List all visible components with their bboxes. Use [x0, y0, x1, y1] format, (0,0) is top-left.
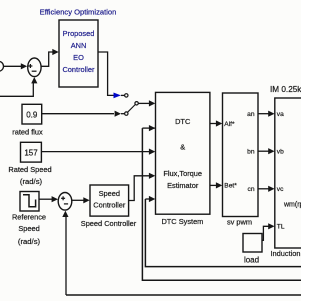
svg-text:Estimator: Estimator — [167, 181, 199, 190]
svg-text:IM 0.25k: IM 0.25k — [270, 85, 301, 94]
wire sum1 to ANN block — [41, 52, 53, 66]
block load — [243, 234, 262, 253]
block ANN EO Controller — [59, 20, 98, 87]
svg-text:sv pwm: sv pwm — [227, 218, 252, 227]
blue arrowhead — [114, 93, 121, 99]
svg-text:Speed: Speed — [99, 189, 120, 198]
svg-text:(rad/s): (rad/s) — [18, 237, 41, 246]
block DTC System — [156, 92, 210, 214]
wire ANN out to switch — [98, 52, 114, 95]
svg-text:an: an — [247, 111, 255, 118]
manual switch — [125, 94, 128, 97]
svg-text:&: & — [180, 143, 185, 152]
svg-text:DTC System: DTC System — [161, 217, 203, 226]
wire 157 to DTC in3 — [41, 151, 149, 153]
svg-text:Alf*: Alf* — [224, 121, 235, 128]
block sv pwm — [223, 93, 259, 217]
svg-text:load: load — [244, 255, 259, 264]
wires DTC outputs to sv pwm — [210, 123, 217, 125]
svg-text:Bet*: Bet* — [224, 183, 237, 190]
svg-text:vb: vb — [277, 149, 284, 156]
wire speed controller to DTC in4 — [129, 176, 150, 201]
block Speed Controller — [90, 185, 129, 216]
svg-text:0.9: 0.9 — [26, 110, 38, 119]
svg-text:Reference: Reference — [12, 212, 46, 221]
svg-text:bn: bn — [247, 148, 255, 155]
svg-text:va: va — [277, 111, 284, 118]
block 0.9 rated flux — [22, 104, 42, 124]
svg-text:Proposed: Proposed — [63, 29, 95, 38]
wire load to TL — [262, 226, 269, 240]
svg-text:Controller: Controller — [62, 65, 95, 74]
svg-text:Speed Controller: Speed Controller — [81, 219, 137, 228]
svg-text:rated flux: rated flux — [12, 128, 43, 137]
wire 0.9 to switch — [42, 113, 114, 115]
svg-text:cn: cn — [248, 186, 255, 193]
svg-text:(rad/s): (rad/s) — [20, 177, 43, 186]
wire feedback to DTC in5 — [145, 198, 149, 200]
svg-text:vc: vc — [277, 186, 284, 193]
svg-text:wm(rp: wm(rp — [283, 201, 301, 208]
wires sv pwm to induction machine — [258, 113, 269, 115]
wire step to sum2 — [39, 198, 52, 200]
block induction machine — [275, 98, 320, 248]
svg-text:Induction machine: Induction machine — [271, 249, 302, 258]
svg-text:EO: EO — [73, 53, 84, 62]
block 157 Rated Speed — [21, 142, 42, 162]
inport circle — [0, 61, 4, 71]
wire feedback to sum2 bottom — [66, 294, 301, 296]
svg-text:TL: TL — [277, 224, 285, 231]
svg-text:Speed: Speed — [18, 224, 39, 233]
svg-text:ANN: ANN — [71, 41, 87, 50]
wire feedback to DTC in2 — [150, 127, 156, 129]
svg-text:Rated Speed: Rated Speed — [8, 165, 51, 174]
wire sum2 to speed controller — [72, 199, 84, 201]
svg-text:Flux,Torque: Flux,Torque — [163, 169, 202, 178]
wire switch to DTC in1 — [138, 102, 149, 104]
svg-text:Efficiency Optimization: Efficiency Optimization — [40, 7, 117, 16]
wire feedback to sum1 bottom — [0, 83, 33, 96]
step block Reference Speed — [20, 192, 39, 212]
sum S2 — [58, 193, 72, 211]
svg-text:Controller: Controller — [93, 201, 126, 210]
sum S1 — [28, 58, 41, 77]
svg-text:DTC: DTC — [175, 117, 191, 126]
wire inport to sum1 — [4, 65, 22, 67]
svg-text:157: 157 — [24, 149, 38, 158]
